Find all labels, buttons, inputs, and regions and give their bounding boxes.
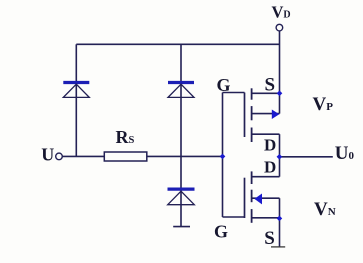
svg-text:G: G: [214, 222, 228, 242]
NMOS drain lead: [252, 176, 280, 178]
wire: PMOS gate lead: [223, 92, 245, 94]
transistor VP (PMOS): [245, 88, 280, 142]
junction dot: output node: [277, 154, 283, 160]
PMOS channel dash middle: [251, 106, 253, 120]
wire: middle diode branch vertical: [180, 44, 182, 226]
wire: top supply rail: [76, 43, 279, 45]
ground tick of lower diode branch: [173, 226, 190, 228]
wire: NMOS source down to tick: [279, 218, 281, 247]
terminal U input circle: [56, 153, 63, 160]
PMOS body arrow: [272, 110, 280, 120]
diode D2 (middle upper clamp): [168, 83, 194, 98]
NMOS body arrow: [254, 194, 262, 205]
svg-text:S: S: [265, 75, 276, 96]
PMOS gate bar: [244, 93, 246, 138]
PMOS channel dash bottom: [251, 128, 253, 143]
NMOS channel dash top: [251, 171, 253, 184]
resistor RS body: [104, 152, 147, 161]
NMOS body lead: [252, 197, 280, 199]
wire: gate vertical bus: [222, 93, 224, 218]
wire: resistor to gate junction: [147, 155, 223, 157]
NMOS channel dash bottom: [251, 209, 253, 223]
svg-text:U: U: [41, 145, 54, 165]
wire: PMOS drain to NMOS drain (output node): [279, 134, 281, 177]
wire: NMOS body lead down to source: [279, 198, 281, 218]
ground tick below NMOS source: [271, 246, 285, 248]
junction dot: NMOS source node: [277, 216, 283, 222]
junction dot: PMOS source node: [277, 90, 283, 96]
diode D1 (left clamp): [63, 83, 89, 98]
wire: VD terminal to rail and PMOS source: [279, 31, 281, 93]
PMOS drain lead: [252, 133, 280, 135]
diode D3 (lower clamp): [168, 189, 195, 205]
PMOS channel dash top: [251, 88, 253, 99]
svg-text:D: D: [264, 136, 276, 155]
wire: NMOS gate lead: [223, 216, 245, 218]
wire: left vertical branch: [75, 44, 77, 156]
NMOS source lead: [252, 217, 280, 219]
PMOS source lead: [252, 92, 280, 94]
NMOS channel dash middle: [251, 190, 253, 203]
svg-text:D: D: [264, 158, 276, 177]
terminal VD circle: [276, 24, 283, 31]
transistor VN (NMOS): [245, 171, 280, 222]
NMOS gate bar: [244, 178, 246, 218]
svg-text:S: S: [264, 228, 275, 249]
wire: output wire: [280, 156, 333, 158]
wire: input wire from terminal to resistor: [63, 155, 104, 157]
junction dot: gate bus node: [220, 154, 226, 160]
wire: PMOS source to body lead: [279, 93, 281, 113]
svg-text:G: G: [217, 75, 231, 95]
PMOS body lead: [252, 113, 280, 115]
